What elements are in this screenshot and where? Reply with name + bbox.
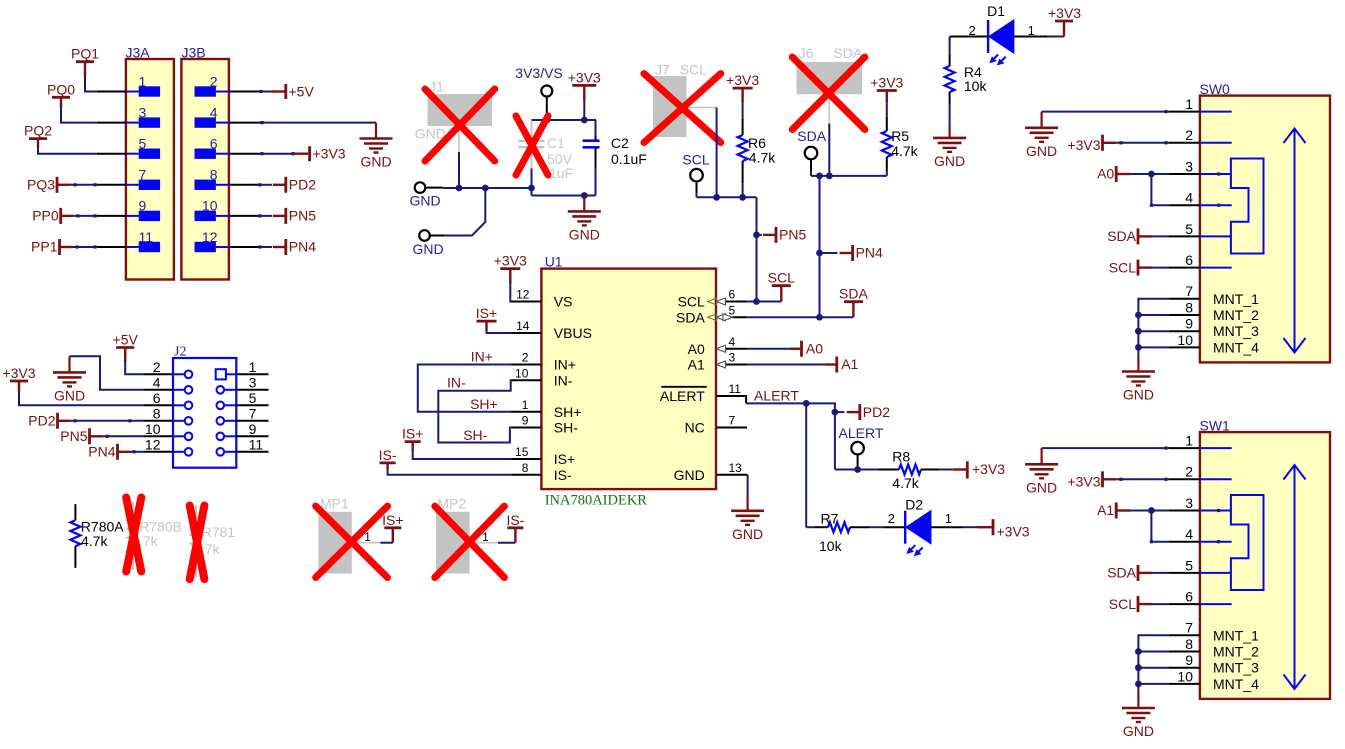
wire +3V3 to SW0 pin2 (1116, 142, 1168, 144)
port PD2 left of J2 (56, 413, 59, 429)
svg-text:SDA: SDA (676, 309, 705, 325)
junction R6 on SCL (739, 194, 746, 201)
svg-text:2: 2 (888, 511, 895, 526)
U1 pin 10 IN- (512, 379, 542, 381)
wire PN4 to J2 pin12 (131, 451, 145, 453)
svg-text:11: 11 (139, 229, 154, 245)
port PN5 left of J2 (88, 428, 91, 444)
port +3V3 above R6 (733, 87, 753, 90)
connector J1 not fitted (428, 94, 493, 126)
SW1 pin 10 lead (1168, 683, 1200, 685)
svg-text:10: 10 (1177, 332, 1193, 348)
SW1 internal pin stubs (1200, 447, 1232, 449)
svg-text:SCL: SCL (678, 294, 705, 310)
svg-text:MNT_3: MNT_3 (1213, 660, 1259, 676)
svg-text:GND: GND (1026, 143, 1057, 159)
svg-text:SDA: SDA (1107, 228, 1136, 244)
svg-text:9: 9 (1185, 316, 1193, 332)
svg-text:NC: NC (685, 420, 705, 436)
svg-text:A1: A1 (1097, 502, 1114, 518)
svg-text:1uF: 1uF (549, 165, 573, 181)
SW0 double arrow (1294, 129, 1296, 353)
SW0 slider symbol (1231, 159, 1264, 254)
wire IN- to SH- loop (438, 380, 511, 442)
U1 pin 2 IN+ (512, 364, 542, 366)
SW0 pin 4 lead (1168, 204, 1200, 206)
wire bottom rail to GND (532, 195, 596, 197)
svg-text:IN-: IN- (447, 375, 466, 391)
junction A1 (1148, 507, 1155, 514)
SW0 pin 5 lead (1168, 235, 1200, 237)
J2 pin 11 circle (217, 448, 225, 456)
wire +3V3 to J2 pin6 (19, 391, 144, 405)
wire IS+ to pin14 (487, 329, 512, 333)
svg-text:8: 8 (1185, 299, 1193, 315)
svg-text:4: 4 (1185, 190, 1193, 206)
SW0 pin 10 lead (1168, 346, 1200, 348)
ground GND left of J2 (68, 356, 70, 372)
svg-text:C2: C2 (611, 135, 629, 151)
svg-text:6: 6 (210, 136, 218, 152)
wire C2 bottom (595, 168, 597, 195)
resistor R6 (742, 102, 744, 119)
svg-text:SH-: SH- (554, 420, 578, 436)
svg-text:4: 4 (729, 335, 736, 349)
J2 pin 11 open lead (236, 451, 268, 453)
svg-text:SCL: SCL (1109, 259, 1136, 275)
junction ALERT (803, 400, 810, 407)
svg-text:6: 6 (153, 390, 161, 406)
svg-text:J7: J7 (655, 62, 670, 78)
wire SCL vertical (756, 197, 758, 301)
svg-text:SH+: SH+ (470, 396, 498, 412)
port PD2 mid (835, 411, 845, 413)
wire GND to J2 pin4 (70, 356, 145, 390)
port SDA at SW0 pin5 (1137, 228, 1140, 244)
svg-text:10: 10 (145, 421, 161, 437)
wire J3B pin8 to PD2 (229, 184, 258, 186)
svg-text:11: 11 (729, 382, 742, 396)
svg-text:IN-: IN- (554, 372, 573, 388)
U1 pin 13 GND (716, 474, 748, 476)
svg-text:15: 15 (515, 445, 529, 459)
svg-text:7: 7 (249, 406, 257, 422)
svg-text:3: 3 (1185, 495, 1193, 511)
port +5V above J2 (116, 346, 134, 349)
SW1 pin 2 lead (1168, 478, 1200, 480)
junction PD2 (832, 409, 839, 416)
J2 pin 10 circle (173, 435, 185, 437)
svg-text:1: 1 (139, 73, 147, 89)
wire +3V3 to SW1 pin2 (1116, 478, 1168, 480)
J2 pin 5 circle (217, 402, 225, 410)
svg-text:PQ0: PQ0 (47, 81, 75, 97)
svg-text:10k: 10k (964, 78, 988, 94)
port SDA at SW1 pin5 (1137, 565, 1140, 581)
J2 pin 6 circle (173, 404, 185, 406)
svg-text:PP0: PP0 (32, 208, 59, 224)
SW0 pin 3 lead (1168, 173, 1200, 175)
svg-text:GND: GND (674, 467, 705, 483)
wire ALERT branch right (806, 403, 835, 469)
wire SCL to SW0 pin6 (1152, 267, 1168, 269)
ground GND at SW1 pin1 (1040, 448, 1042, 464)
svg-text:A1: A1 (841, 356, 858, 372)
svg-text:8: 8 (1185, 636, 1193, 652)
svg-text:PD2: PD2 (863, 404, 890, 420)
ground GND under SW0 (1137, 356, 1139, 372)
svg-text:10k: 10k (819, 538, 843, 554)
wire PP0 to J3A pin9 (74, 215, 97, 217)
port PQ1 (76, 60, 94, 63)
svg-text:SDA: SDA (839, 286, 868, 302)
svg-text:A0: A0 (688, 341, 705, 357)
svg-text:5: 5 (139, 136, 147, 152)
svg-text:3: 3 (1185, 158, 1193, 174)
port +3V3 right of R8 (953, 468, 966, 470)
svg-text:9: 9 (249, 421, 257, 437)
svg-text:MNT_4: MNT_4 (1213, 339, 1259, 355)
ground GND at J3B pin4 (375, 123, 377, 139)
svg-text:2: 2 (522, 351, 529, 365)
svg-text:MNT_1: MNT_1 (1213, 291, 1259, 307)
svg-text:IS-: IS- (379, 447, 397, 463)
wire J3B pin12 to PN4 (229, 246, 258, 248)
resistor R780B not fitted (132, 502, 134, 518)
U1 pin 15 IS+ (512, 458, 542, 460)
U1 pin 6 SCL (726, 301, 747, 303)
svg-text:C1: C1 (547, 135, 565, 151)
wire pin6 to SCL port (746, 301, 781, 303)
wire +3V3 to pin12 (510, 283, 511, 302)
svg-text:SH-: SH- (463, 427, 487, 443)
junction GND under C2 (581, 192, 588, 199)
wire IN+ to SH+ loop (418, 365, 512, 412)
wire pin13 to GND (747, 475, 749, 496)
junction PN5 stub (753, 232, 760, 239)
J2 pin 5 open lead (236, 404, 268, 406)
wire IS+ to pin15 (413, 450, 512, 459)
SW1 pin 6 lead (1168, 603, 1200, 605)
wire R8 to +3V3 (940, 469, 953, 471)
svg-text:10: 10 (515, 366, 529, 380)
J3A pad pin 5 (126, 153, 139, 155)
svg-text:11: 11 (249, 437, 264, 453)
svg-text:SCL: SCL (1109, 596, 1136, 612)
svg-text:12: 12 (202, 229, 218, 245)
svg-text:5: 5 (1185, 221, 1193, 237)
svg-text:PN4: PN4 (856, 245, 883, 261)
svg-text:1: 1 (249, 359, 257, 375)
svg-text:4.7k: 4.7k (749, 150, 776, 166)
svg-text:GND: GND (360, 154, 391, 170)
wire SDA horizontal (811, 175, 887, 177)
svg-text:3: 3 (139, 104, 147, 120)
J2 pin 1 square (216, 369, 226, 379)
svg-text:2: 2 (210, 73, 218, 89)
J3B pad pin 2 (216, 91, 229, 93)
junction SDA vertical (816, 173, 823, 180)
svg-text:SCL: SCL (768, 270, 795, 286)
ground GND under R4 (948, 123, 950, 137)
resistor R8 (879, 469, 899, 471)
connector J2 body (173, 358, 236, 468)
svg-text:12: 12 (145, 437, 161, 453)
J2 pin 8 circle (173, 420, 185, 422)
wire R8 row (835, 469, 879, 471)
wire R4 to GND (949, 104, 951, 124)
svg-text:10: 10 (1177, 668, 1193, 684)
svg-text:VBUS: VBUS (554, 325, 592, 341)
port PD2 right of J3B (284, 177, 287, 193)
svg-text:PP1: PP1 (31, 239, 58, 255)
mount MP2 not fitted (436, 512, 470, 574)
svg-text:U1: U1 (545, 254, 563, 270)
wire PP1 to J3A pin11 (73, 246, 97, 248)
svg-text:8: 8 (210, 167, 218, 183)
SW1 pin 7 lead (1168, 634, 1200, 636)
svg-text:GND: GND (1123, 723, 1154, 739)
J3B pad pin 8 (216, 184, 229, 186)
port IS+ at MP1 (380, 542, 393, 544)
port A0 at SW0 pin3 (1115, 166, 1118, 182)
svg-text:IS+: IS+ (402, 426, 423, 442)
svg-text:+5V: +5V (113, 332, 139, 348)
svg-text:J3B: J3B (182, 45, 206, 61)
capacitor C2 (595, 120, 597, 136)
svg-text:+3V3: +3V3 (313, 145, 346, 161)
svg-text:PQ1: PQ1 (71, 46, 99, 62)
svg-text:GND: GND (569, 226, 600, 242)
port PQ0 (52, 96, 70, 99)
U1 pin 3 A1 (726, 364, 748, 366)
svg-text:+3V3: +3V3 (726, 72, 759, 88)
port +3V3 left of J2 (10, 380, 28, 383)
wire ALERT from pin11 (746, 402, 806, 404)
svg-text:PN4: PN4 (88, 444, 115, 460)
svg-text:SDA: SDA (1107, 565, 1136, 581)
svg-text:R5: R5 (891, 128, 909, 144)
port SCL above pin6 (772, 284, 791, 287)
wire PQ2 to J3A pin5 (38, 147, 97, 154)
port A0 (790, 348, 800, 350)
svg-text:4.7k: 4.7k (892, 475, 919, 491)
svg-text:GND: GND (934, 153, 965, 169)
wire GND rail (443, 187, 532, 189)
U1 pin 7 NC (716, 427, 747, 429)
port PP0 (59, 208, 62, 224)
svg-text:J2: J2 (174, 345, 186, 360)
svg-text:J6: J6 (799, 45, 814, 61)
svg-text:GND: GND (1026, 479, 1057, 495)
red cross over MP2 (435, 506, 505, 577)
svg-text:GND: GND (412, 241, 443, 257)
SW0 pin 7 lead (1168, 298, 1200, 300)
J2 pin 7 open lead (236, 420, 268, 422)
svg-text:ALERT: ALERT (754, 387, 799, 403)
SW0 pin 9 lead (1168, 330, 1200, 332)
port IS- at pin8 (380, 461, 396, 464)
wire J3B pin2 to +5V (229, 91, 260, 93)
wire J3B pin4 to GND (229, 122, 261, 124)
wire SW0 mount pins to GND (1138, 299, 1168, 356)
port +3V3 above R5 (877, 89, 897, 92)
port SDA above pin5 (844, 300, 863, 303)
svg-text:8: 8 (153, 406, 161, 422)
terminal ALERT circle (851, 442, 864, 455)
svg-text:14: 14 (516, 319, 530, 333)
svg-text:SDA: SDA (797, 128, 826, 144)
svg-text:5: 5 (1185, 557, 1193, 573)
port PP1 (58, 239, 61, 255)
wire PQ0 to J3A pin3 (61, 106, 97, 123)
connector J6 not fitted (797, 62, 863, 94)
port A1 at SW1 pin3 (1115, 503, 1118, 519)
svg-text:IS+: IS+ (382, 512, 403, 528)
wire PD2 to J2 pin8 (71, 420, 145, 422)
U1 pin 8 IS- (512, 474, 542, 476)
svg-text:SW0: SW0 (1200, 81, 1231, 97)
wire SW0 pin1 to GND (1042, 111, 1169, 113)
wire PQ1 to J3A pin1 (85, 76, 97, 92)
svg-text:+3V3: +3V3 (1048, 5, 1081, 21)
svg-text:INA780AIDEKR: INA780AIDEKR (545, 492, 648, 508)
svg-text:0.1uF: 0.1uF (611, 151, 647, 167)
svg-text:A1: A1 (688, 357, 705, 373)
wire D2 anode to +3V3 (931, 526, 962, 528)
resistor R7 (815, 526, 828, 528)
mount MP1 not fitted (318, 512, 351, 574)
wire SDA to SW1 pin5 (1152, 572, 1168, 574)
resistor R781 not fitted (195, 506, 197, 525)
ic U1 body (541, 269, 716, 490)
J2 pin 12 circle (173, 451, 185, 453)
svg-text:6: 6 (1185, 589, 1193, 605)
port +3V3 right of D2 (977, 526, 992, 528)
svg-text:PD2: PD2 (289, 177, 316, 193)
svg-text:GND: GND (732, 526, 763, 542)
svg-text:MNT_2: MNT_2 (1213, 644, 1259, 660)
wire IS- to pin8 (388, 468, 512, 475)
wire J1 drop (458, 152, 460, 188)
svg-text:PD2: PD2 (28, 413, 55, 429)
svg-text:5: 5 (249, 390, 257, 406)
junction at J1 drop (456, 185, 463, 192)
wire to GND circle 2 (445, 188, 486, 236)
svg-text:MNT_4: MNT_4 (1213, 676, 1259, 692)
svg-text:+3V3: +3V3 (1067, 474, 1100, 490)
SW1 slider symbol (1231, 495, 1264, 590)
junction ALERT circle (854, 466, 861, 473)
terminal GND circle 1 (415, 182, 426, 193)
svg-text:MNT_1: MNT_1 (1213, 627, 1259, 643)
ground GND under C2 (583, 196, 585, 212)
svg-text:IS-: IS- (506, 512, 524, 528)
port PN4 left of J2 (116, 444, 119, 460)
U1 pin 9 SH- (512, 427, 542, 429)
wire ALERT down to R7 (805, 403, 807, 527)
svg-text:ALERT: ALERT (839, 425, 884, 441)
svg-text:R780A: R780A (81, 519, 124, 535)
SW1 pin 1 lead (1168, 447, 1200, 449)
junction 3V3/VS (543, 117, 550, 124)
SW1 pin 8 lead (1168, 651, 1200, 653)
red cross over MP1 (316, 506, 388, 577)
J2 pin 7 circle (217, 417, 225, 425)
svg-text:GND: GND (1123, 387, 1154, 403)
wire D1 cathode to R4 (950, 36, 989, 38)
svg-text:7: 7 (729, 414, 736, 428)
svg-text:SH+: SH+ (554, 404, 582, 420)
svg-text:7: 7 (1185, 620, 1193, 636)
SW0 internal pin stubs (1200, 111, 1232, 113)
svg-text:10: 10 (202, 198, 218, 214)
svg-text:D1: D1 (987, 3, 1005, 19)
junctions SW0 mount (1135, 312, 1142, 319)
red cross over J7 (644, 74, 721, 143)
svg-text:4.7k: 4.7k (81, 533, 108, 549)
svg-text:9: 9 (522, 414, 529, 428)
svg-text:IS+: IS+ (476, 305, 497, 321)
junction A0 (1148, 171, 1155, 178)
junction at GND branch (482, 185, 489, 192)
port IS- at MP2 (498, 542, 515, 544)
port SCL at SW0 pin6 (1137, 260, 1140, 276)
J3A pad pin 7 (126, 184, 139, 186)
svg-text:9: 9 (1185, 652, 1193, 668)
wire J6 drop (828, 124, 830, 176)
port +3V3 at SW0 pin2 (1101, 135, 1104, 151)
svg-text:5: 5 (729, 303, 736, 317)
J2 pin 9 open lead (236, 435, 268, 437)
svg-text:2: 2 (1185, 464, 1193, 480)
svg-text:3V3/VS: 3V3/VS (515, 65, 562, 81)
J3B pad pin 10 (216, 215, 229, 217)
svg-text:+3V3: +3V3 (568, 69, 601, 85)
svg-text:GND: GND (54, 387, 85, 403)
connector J3B body (181, 59, 229, 280)
svg-text:R7: R7 (821, 510, 839, 526)
J3B pad pin 4 (216, 122, 229, 124)
svg-text:+3V3: +3V3 (2, 365, 35, 381)
wire J3B pin6 to +3V3 (229, 153, 260, 155)
svg-text:A0: A0 (1097, 166, 1114, 182)
svg-text:4.7k: 4.7k (891, 143, 918, 159)
J3A pad pin 3 (126, 122, 139, 124)
port IS+ at pin15 (405, 440, 421, 443)
wire pin5 to SDA port (747, 316, 854, 318)
switch SW0 body (1200, 96, 1330, 363)
red cross over C1 (516, 116, 548, 175)
junction SCL pin6 (753, 298, 760, 305)
red cross over J6 (792, 57, 865, 130)
port PN4 right of J3B (284, 239, 287, 255)
svg-text:4: 4 (1185, 526, 1193, 542)
J3A pad pin 11 (126, 246, 139, 248)
ground GND under pin13 (746, 496, 748, 511)
svg-text:D2: D2 (905, 496, 923, 512)
wire SW1 mount pins to GND (1138, 635, 1168, 692)
svg-text:7: 7 (139, 167, 147, 183)
SW0 pin 6 lead (1168, 267, 1200, 269)
ground GND at SW0 pin1 (1040, 112, 1042, 128)
J2 pin 1 open lead (236, 373, 268, 375)
svg-text:R780B: R780B (139, 519, 182, 535)
terminal GND circle 2 (419, 230, 430, 241)
wire R7 to D2 (869, 526, 884, 528)
SW1 pin 4 lead (1168, 541, 1200, 543)
svg-text:IS-: IS- (554, 467, 572, 483)
